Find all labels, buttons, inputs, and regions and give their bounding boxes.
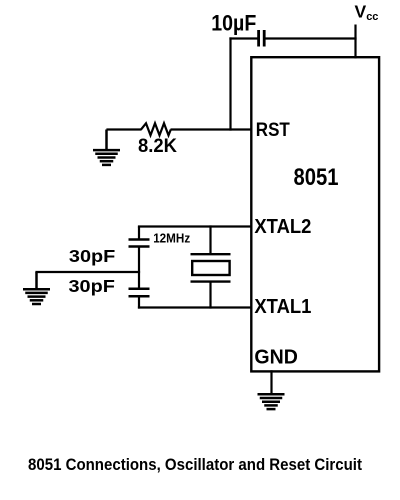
svg-text:10µF: 10µF [211, 10, 256, 35]
svg-text:30pF: 30pF [69, 276, 116, 296]
svg-text:12MHz: 12MHz [153, 230, 190, 245]
svg-text:XTAL1: XTAL1 [254, 296, 311, 318]
crystal Y1 bottom plate [191, 280, 231, 282]
wire C1 left plate to corner [229, 37, 257, 39]
wire C1 right plate to Vcc stem [265, 37, 356, 39]
resistor R1 zigzag [141, 123, 171, 135]
capacitor C3 plates 30pF bottom [129, 289, 150, 297]
svg-text:GND: GND [254, 346, 298, 368]
svg-text:8051: 8051 [294, 164, 339, 191]
wire between C2 and C3 [138, 247, 140, 289]
crystal Y1 stem top [209, 225, 211, 254]
crystal Y1 stem bottom [209, 282, 211, 309]
svg-text:8051 Connections, Oscillator a: 8051 Connections, Oscillator and Reset C… [28, 456, 362, 474]
crystal Y1 top plate [191, 253, 231, 255]
wire vertical from C1 corner down to RST net [229, 37, 231, 130]
capacitor C1 plates [259, 30, 265, 47]
capacitor C2 plates 30pF top [129, 240, 150, 247]
svg-text:8.2K: 8.2K [138, 135, 177, 157]
svg-text:30pF: 30pF [69, 246, 116, 266]
ground symbol G3 below IC [258, 394, 285, 409]
wire XTAL2 pin to oscillator [138, 225, 251, 227]
IC U1 8051 body [251, 57, 379, 371]
wire vertical into capacitor C2 [138, 227, 140, 240]
crystal Y1 body [192, 261, 229, 275]
svg-text:XTAL2: XTAL2 [254, 216, 311, 238]
svg-text:Vcc: Vcc [355, 2, 379, 24]
wire GND pin to ground [270, 370, 272, 394]
ground symbol G2 left [23, 272, 50, 304]
wire XTAL1 pin to oscillator [138, 306, 251, 308]
wire capacitors midpoint to ground [35, 271, 140, 273]
ground symbol G1 below resistor [93, 130, 120, 165]
wire ground to resistor R1 [106, 128, 141, 130]
svg-text:RST: RST [256, 119, 290, 141]
wire resistor R1 to RST pin [171, 128, 251, 130]
wire Vcc stem [354, 25, 356, 59]
wire C3 to XTAL1 net [138, 296, 140, 308]
